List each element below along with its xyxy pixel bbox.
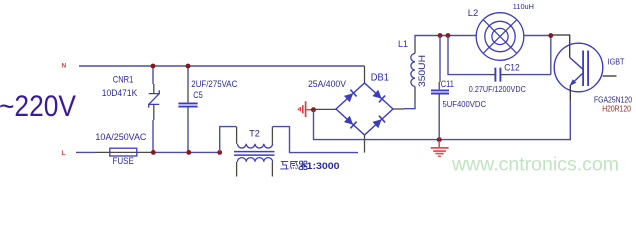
svg-text:L2: L2 [468,8,479,18]
junction dot top rail C11 [438,33,443,38]
diode D-bottomleft [344,116,357,129]
capacitor C11 pin lower [438,94,440,103]
svg-text:L1: L1 [398,39,408,49]
inductor L1 winding [411,54,415,87]
svg-text:1:3000: 1:3000 [307,161,340,172]
svg-text:N: N [62,63,67,70]
capacitor C12 pin right [501,74,507,76]
svg-text:DB1: DB1 [371,72,389,84]
label qi (器) [300,161,307,169]
capacitor C5 pin lower [187,108,189,119]
varistor CNR1 pin upper [153,84,155,93]
diode D-topright [372,90,385,103]
transistor U1 collector diagonal [570,58,583,70]
svg-text:C12: C12 [504,62,520,72]
transistor U1 emitter pin (black) [569,86,571,101]
fuse FUSE body [110,148,137,156]
capacitor C11 wire upper [439,36,441,83]
svg-text:L: L [62,150,66,157]
varistor CNR1 wire lower [152,120,154,152]
svg-text:350UH: 350UH [417,55,427,87]
IGBT collector wire (black) [551,35,570,58]
capacitor C5 pin upper [187,88,189,102]
transformer T2 secondary winding [237,158,272,162]
capacitor C5 wire upper [187,66,189,88]
transformer T2 secondary right lead [271,162,273,177]
junction dot L-T2 [217,150,222,155]
bridge DB1 diamond [336,83,393,135]
capacitor C5 plates [178,103,197,106]
varistor CNR1 zigzag [149,90,160,107]
svg-text:~220V: ~220V [0,90,76,123]
transformer T2 core [234,152,275,156]
label hu (互) [280,162,288,169]
wire L1 to top rail [415,36,476,45]
wire T2 right step to bridge [272,127,358,153]
bridge DB1 bottom pin [364,135,366,153]
junction dot N-CNR1 [151,64,156,69]
junction dot AC-minus node [311,107,316,112]
svg-text:CNR1: CNR1 [113,75,134,86]
junction dot L-C5 [186,150,191,155]
diode D-bottomright [372,116,385,129]
transformer T2 secondary left lead [236,162,238,177]
capacitor C11 wire lower [438,103,440,140]
wire IGBT node down to gate corner [550,36,552,75]
capacitor C11 pin upper [438,82,440,89]
svg-text:C5: C5 [193,90,203,100]
svg-text:25A/400V: 25A/400V [308,79,347,90]
svg-text:IGBT: IGBT [608,58,625,67]
inductor L2 outer circle [476,13,524,61]
fuse FUSE pins [95,151,153,153]
capacitor C12 plates [495,68,500,82]
svg-text:C11: C11 [441,79,454,89]
wire N rail [79,65,365,67]
varistor CNR1 wire upper [152,66,154,84]
bridge DB1 right pin [393,108,404,110]
svg-text:5UF400VDC: 5UF400VDC [443,100,487,109]
ac input marker (red bars) [298,101,312,117]
wire bridge to L1 [404,98,415,109]
svg-text:FUSE: FUSE [112,156,133,167]
varistor CNR1 pin lower [153,104,155,120]
transformer T2 primary winding [237,144,272,148]
junction dot top rail C12 [446,33,451,38]
svg-text:T2: T2 [249,128,259,139]
inductor L1 upper pin [414,44,416,54]
inductor L2 inner circle [492,28,508,44]
junction dot N-C5 [186,64,191,69]
capacitor C5 wire lower [187,118,189,152]
ground rail wire [314,100,571,140]
svg-text:FGA25N120: FGA25N120 [594,95,632,104]
transistor U1 body bars [583,51,588,87]
junction dot L-CNR1 [151,150,156,155]
ground symbol [431,141,449,156]
bridge DB1 left pin [314,108,336,110]
wire T2 left step [220,127,237,153]
wire L rail between fuse and T2 [153,151,219,153]
inductor L2 middle circle [485,21,515,51]
inductor L1 lower pin [414,86,416,98]
transformer T2 primary right pin [271,127,273,144]
transistor U1 IGBT circle [554,43,603,92]
svg-text:H20R120: H20R120 [602,105,631,114]
svg-text:10D471K: 10D471K [102,88,138,99]
junction dot top rail IGBT [548,33,553,38]
wire top rail L2 right to IGBT node [524,35,551,37]
svg-text:www.cntronics.com: www.cntronics.com [451,155,619,176]
svg-text:10A/250VAC: 10A/250VAC [95,132,146,143]
inductor L2 cross diagonals [483,20,517,54]
transformer T2 primary left pin [236,127,238,144]
capacitor C12 wire left [448,36,489,75]
svg-text:0.27UF/1200VDC: 0.27UF/1200VDC [469,85,526,94]
wire L rail left of fuse [76,151,95,153]
bridge DB1 top pin [364,66,366,83]
transistor U1 emitter diagonal with arrow [573,73,584,83]
diode D-topleft [344,90,357,103]
transistor U1 right lead (black) [603,75,617,77]
svg-text:2UF/275VAC: 2UF/275VAC [191,79,237,89]
capacitor C12 wire right [507,74,551,76]
label gan (感) [290,161,298,169]
capacitor C11 plates [431,90,449,93]
junction dot ground node [437,137,442,142]
svg-text:110uH: 110uH [513,2,534,11]
capacitor C12 pin left [489,74,495,76]
